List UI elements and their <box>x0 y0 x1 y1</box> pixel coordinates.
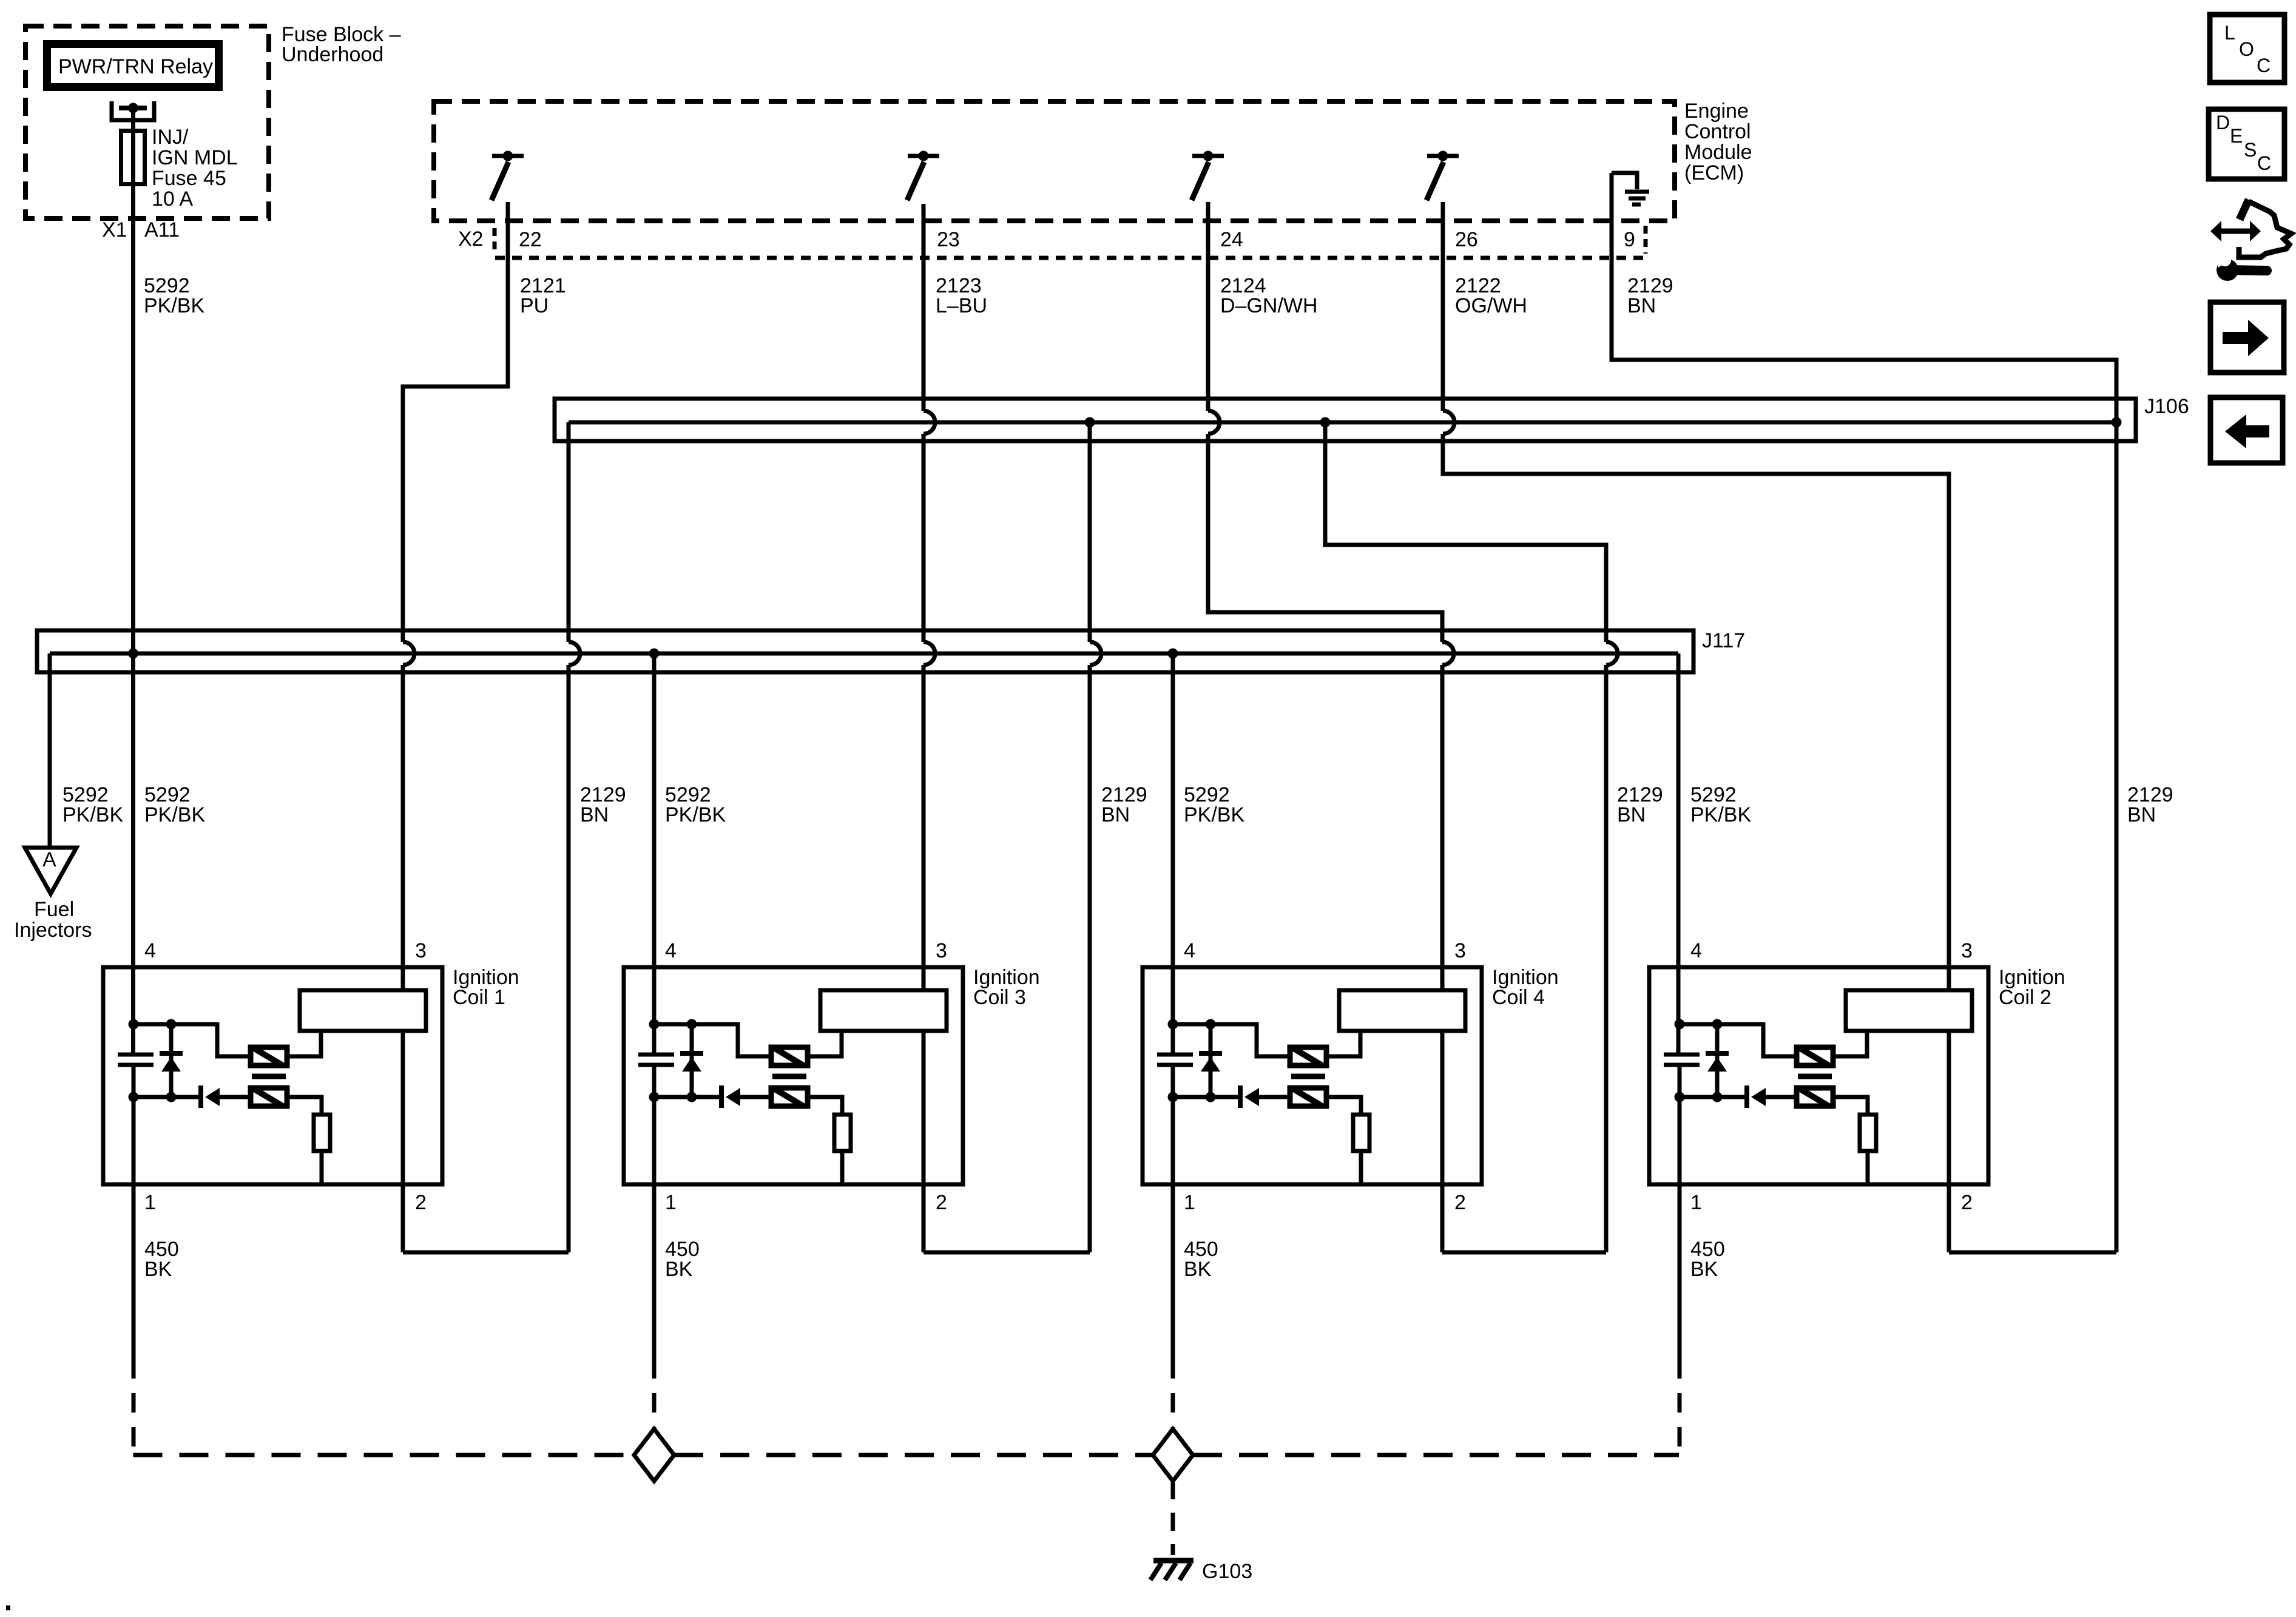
wire 2121 PU: pin22 down, jog left, through J117 to coil1 pin3 <box>403 202 508 642</box>
wire 2129 BN: ECM pin9 ground, jog right, down to J106 splice and coil2 pin2 <box>1612 173 2116 1252</box>
svg-text:Control: Control <box>1684 120 1751 143</box>
ignition coil Coil 2 box <box>1649 967 1988 1184</box>
resistor R (Coil 4) <box>1353 1115 1369 1151</box>
svg-text:2: 2 <box>936 1191 947 1214</box>
svg-text:BN: BN <box>580 803 609 826</box>
svg-text:D–GN/WH: D–GN/WH <box>1220 294 1318 317</box>
svg-text:A: A <box>42 848 56 871</box>
svg-text:4: 4 <box>1184 939 1195 962</box>
capacitor C (Coil 2) <box>1664 1053 1700 1057</box>
node: J106 junction with ECM pin9 ground wire <box>2112 417 2122 428</box>
wire top branch to primary winding (Coil 3) <box>654 1024 772 1056</box>
wire 2122 OG/WH: pin26 down, jog right, to coil2 pin3 <box>1441 202 1445 411</box>
svg-text:23: 23 <box>937 228 960 251</box>
ECM coil driver (switch) at pin wire x=2378 <box>1438 151 1448 161</box>
splice diamond on ground bus (coil 3) <box>634 1429 674 1481</box>
svg-text:BN: BN <box>1617 803 1646 826</box>
svg-text:3: 3 <box>415 939 427 962</box>
ECM coil driver (switch) at pin wire x=1991 <box>1203 151 1214 161</box>
primary winding (Coil 2) <box>1797 1047 1833 1065</box>
svg-text:PU: PU <box>520 294 549 317</box>
svg-text:3: 3 <box>1454 939 1466 962</box>
wire resistor to case (Coil 3) <box>840 1151 845 1184</box>
primary winding (Coil 4) <box>1290 1047 1326 1065</box>
icon DESC box <box>2209 109 2284 179</box>
wire 2129 BN: J106 tap jog right down through J117 to coil4 pin2 <box>1325 422 1606 642</box>
zener diode D1 (Coil 3) <box>690 1024 694 1097</box>
svg-text:10 A: 10 A <box>152 187 193 211</box>
wire 2129 BN: J106 bus left end down through J117 to coil1 pin2 <box>567 422 571 642</box>
transformer core (Coil 3) <box>772 1074 806 1079</box>
node: J117 junction with fuse feed <box>128 649 138 659</box>
svg-text:Fuse 45: Fuse 45 <box>152 167 226 190</box>
wire bottom branch (Coil 2) <box>1680 1095 1747 1099</box>
ignition coil Coil 4 box <box>1143 967 1482 1184</box>
svg-text:BN: BN <box>2127 803 2156 826</box>
fuse block underhood dashed enclosure <box>25 26 269 218</box>
wire primary to tower (Coil 1) <box>287 1031 321 1056</box>
svg-text:A11: A11 <box>144 218 180 241</box>
primary winding (Coil 1) <box>251 1047 287 1065</box>
secondary winding (Coil 4) <box>1290 1088 1326 1106</box>
secondary winding (Coil 2) <box>1797 1088 1833 1106</box>
svg-text:Coil 2: Coil 2 <box>1999 986 2051 1009</box>
svg-text:IGN MDL: IGN MDL <box>152 146 238 169</box>
wire 5292 PK/BK: J117 tap down to coil3 pin 4 <box>652 653 657 1055</box>
off-page connector A: Fuel Injectors <box>25 848 76 894</box>
svg-text:1: 1 <box>1184 1191 1195 1214</box>
svg-text:OG/WH: OG/WH <box>1455 294 1527 317</box>
zener diode D1 (Coil 2) <box>1715 1024 1720 1097</box>
connector separator right of pin 9 <box>1644 226 1648 254</box>
connector separator X2 <box>493 228 497 252</box>
wire pin4 branch lower segment (Coil 2) <box>1678 1065 1682 1359</box>
wire 450 BK dashed to ground bus (Coil 2) <box>1678 1359 1682 1455</box>
wire coil2 pin2 to 2129 BN <box>1949 1251 2116 1255</box>
wire 2123 L-BU: pin23 straight down through J106,J117 to coil3 pin3 <box>922 204 926 411</box>
wire coil1 pin2 to 2129 BN <box>403 1251 569 1255</box>
wire top branch to primary winding (Coil 1) <box>133 1024 251 1056</box>
svg-text:PK/BK: PK/BK <box>144 803 205 826</box>
svg-text:L: L <box>2224 22 2235 44</box>
svg-text:Coil 4: Coil 4 <box>1492 986 1545 1009</box>
node: relay output junction <box>119 106 147 110</box>
svg-text:BK: BK <box>1690 1258 1718 1281</box>
secondary tower block (Coil 2) <box>1846 990 1972 1031</box>
svg-text:1: 1 <box>1690 1191 1702 1214</box>
zener diode D1 (Coil 4) <box>1209 1024 1213 1097</box>
svg-text:BN: BN <box>1101 803 1130 826</box>
svg-text:1: 1 <box>665 1191 677 1214</box>
splice pack J117 bus bar <box>50 652 1678 656</box>
svg-text:C: C <box>2257 152 2271 174</box>
secondary tower block (Coil 4) <box>1339 990 1465 1031</box>
wire pin3/pin2 through tower (Coil 3) <box>922 1031 926 1252</box>
wire bottom branch (Coil 3) <box>654 1095 722 1099</box>
wire primary to tower (Coil 2) <box>1833 1031 1867 1056</box>
svg-text:PWR/TRN Relay: PWR/TRN Relay <box>58 55 213 78</box>
svg-text:2: 2 <box>1454 1191 1466 1214</box>
svg-text:O: O <box>2239 38 2254 60</box>
splice pack J106 bus bar <box>569 420 2116 425</box>
ground G103 symbol <box>1153 1558 1194 1564</box>
svg-text:X1: X1 <box>102 218 127 241</box>
wire resistor to case (Coil 4) <box>1359 1151 1363 1184</box>
node junctions on pin4 branch (Coil 4) <box>1168 1019 1178 1030</box>
node: J117 tap to coil3 pin 4 <box>649 649 660 659</box>
svg-text:Module: Module <box>1684 141 1752 164</box>
relay K: PWR/TRN Relay <box>47 44 219 87</box>
node junctions on pin4 branch (Coil 2) <box>1675 1019 1685 1030</box>
wire bottom branch (Coil 4) <box>1173 1095 1241 1099</box>
svg-text:2: 2 <box>415 1191 427 1214</box>
wire top branch to primary winding (Coil 2) <box>1680 1024 1797 1056</box>
wire pin3/pin2 through tower (Coil 4) <box>1440 1031 1445 1252</box>
svg-text:D: D <box>2216 112 2230 133</box>
icon LOC box <box>2210 15 2284 83</box>
svg-text:BN: BN <box>1627 294 1656 317</box>
svg-text:PK/BK: PK/BK <box>1184 803 1244 826</box>
ECM connector row dotted line <box>495 256 1646 260</box>
svg-text:1: 1 <box>144 1191 156 1214</box>
wire 5292 PK/BK: J117 right end down to coil2 pin 4 <box>1676 653 1681 1055</box>
fuse F45: INJ/IGN MDL Fuse 45 10A <box>121 131 145 184</box>
capacitor C (Coil 4) <box>1157 1053 1193 1057</box>
wire coil4 pin2 to 2129 BN <box>1442 1251 1606 1255</box>
wire 5292 PK/BK: J117 left end down to fuel injectors <box>48 653 52 848</box>
capacitor C (Coil 1) <box>118 1053 154 1057</box>
svg-text:Injectors: Injectors <box>14 919 92 942</box>
svg-text:22: 22 <box>519 228 542 251</box>
wire pin4 branch lower segment (Coil 4) <box>1171 1065 1175 1359</box>
wire coil3 pin2 to 2129 BN <box>923 1251 1090 1255</box>
svg-text:(ECM): (ECM) <box>1684 161 1744 184</box>
svg-text:PK/BK: PK/BK <box>144 294 204 317</box>
secondary tower block (Coil 3) <box>820 990 947 1031</box>
splice diamond on ground bus (coil 4) <box>1153 1429 1193 1481</box>
svg-text:L–BU: L–BU <box>936 294 987 317</box>
wire pin4 branch lower segment (Coil 3) <box>652 1065 657 1359</box>
svg-text:X2: X2 <box>458 228 484 251</box>
svg-text:J106: J106 <box>2144 395 2189 418</box>
secondary winding (Coil 1) <box>251 1088 287 1106</box>
ignition coil Coil 1 box <box>103 967 442 1184</box>
icon forward arrow box <box>2210 302 2284 373</box>
svg-text:9: 9 <box>1624 228 1635 251</box>
relay output terminal bracket <box>112 101 154 120</box>
svg-text:4: 4 <box>144 939 156 962</box>
svg-text:BK: BK <box>1184 1258 1212 1281</box>
capacitor C (Coil 3) <box>638 1053 674 1057</box>
transformer core (Coil 2) <box>1798 1074 1832 1079</box>
ignition coil Coil 3 box <box>624 967 963 1184</box>
wire pin3/pin2 through tower (Coil 2) <box>1947 1031 1951 1252</box>
svg-text:BK: BK <box>665 1258 693 1281</box>
wire pin3/pin2 through tower (Coil 1) <box>401 1031 405 1252</box>
svg-text:C: C <box>2257 55 2271 76</box>
icon back arrow box <box>2210 397 2283 463</box>
splice pack J106 housing <box>555 399 2136 441</box>
wire 5292 PK/BK: J117 tap down to coil4 pin 4 <box>1171 653 1175 1055</box>
svg-text:Coil 1: Coil 1 <box>453 986 505 1009</box>
svg-text:3: 3 <box>936 939 947 962</box>
node junctions on pin4 branch (Coil 1) <box>129 1019 139 1030</box>
resistor R (Coil 2) <box>1860 1115 1876 1151</box>
svg-text:PK/BK: PK/BK <box>62 803 123 826</box>
wire 2124 D-GN/WH: pin24 down, jog right, to coil4 pin3 <box>1206 202 1210 411</box>
node: J106 tap to coil4 pin2 <box>1320 417 1331 428</box>
node: J117 tap to coil4 pin 4 <box>1168 649 1178 659</box>
wire top branch to primary winding (Coil 4) <box>1173 1024 1291 1056</box>
wire primary to tower (Coil 4) <box>1326 1031 1360 1056</box>
ECM coil driver (switch) at pin wire x=837 <box>503 151 513 161</box>
svg-text:PK/BK: PK/BK <box>1690 803 1751 826</box>
svg-text:BK: BK <box>144 1258 172 1281</box>
diode D2 (Coil 3) <box>719 1085 724 1108</box>
svg-text:2: 2 <box>1961 1191 1973 1214</box>
wire 450 BK dashed to ground bus (Coil 4) <box>1171 1359 1175 1429</box>
svg-text:Engine: Engine <box>1684 100 1749 123</box>
node junctions on pin4 branch (Coil 3) <box>649 1019 660 1030</box>
svg-text:Fuel: Fuel <box>34 898 74 921</box>
zener diode D1 (Coil 1) <box>169 1024 174 1097</box>
primary winding (Coil 3) <box>771 1047 808 1065</box>
svg-text:G103: G103 <box>1202 1560 1252 1583</box>
wire 450 BK dashed to ground bus (Coil 1) <box>132 1359 136 1455</box>
node: J106 tap to coil3 pin2 <box>1085 417 1095 428</box>
svg-text:PK/BK: PK/BK <box>665 803 726 826</box>
ECM coil driver (switch) at pin wire x=1522 <box>919 151 929 161</box>
wire secondary to resistor (Coil 2) <box>1833 1097 1868 1115</box>
transformer core (Coil 1) <box>252 1074 286 1079</box>
svg-text:E: E <box>2230 125 2243 147</box>
resistor R (Coil 3) <box>834 1115 851 1151</box>
wire pin4 branch lower segment (Coil 1) <box>132 1065 136 1359</box>
svg-text:Underhood: Underhood <box>282 43 383 66</box>
wire resistor to case (Coil 1) <box>320 1151 324 1184</box>
wire bottom branch (Coil 1) <box>133 1095 201 1099</box>
wire 5292 PK/BK from fuse A11 down to J117 splice (coil 1 pin 4 feed) <box>131 108 135 1055</box>
secondary tower block (Coil 1) <box>300 990 426 1031</box>
diode D2 (Coil 2) <box>1744 1085 1749 1108</box>
svg-text:J117: J117 <box>1702 629 1745 652</box>
wire secondary to resistor (Coil 1) <box>287 1097 322 1115</box>
diode D2 (Coil 4) <box>1238 1085 1243 1108</box>
wire 450 BK dashed to ground bus (Coil 3) <box>652 1359 657 1429</box>
svg-text:S: S <box>2244 139 2257 161</box>
secondary winding (Coil 3) <box>771 1088 808 1106</box>
wire secondary to resistor (Coil 4) <box>1326 1097 1361 1115</box>
svg-text:4: 4 <box>665 939 677 962</box>
svg-text:24: 24 <box>1220 228 1243 251</box>
wire dashed splice to ground G103 <box>1171 1481 1175 1555</box>
icon wiring diagram / wrench <box>2210 221 2221 241</box>
svg-text:4: 4 <box>1690 939 1702 962</box>
svg-text:26: 26 <box>1455 228 1478 251</box>
ECM dashed enclosure: Engine Control Module <box>434 101 1675 221</box>
wire secondary to resistor (Coil 3) <box>808 1097 842 1115</box>
transformer core (Coil 4) <box>1291 1074 1325 1079</box>
resistor R (Coil 1) <box>314 1115 330 1151</box>
svg-text:Coil 3: Coil 3 <box>973 986 1026 1009</box>
wire 450 BK dashed ground bus <box>133 1453 635 1457</box>
wire 2129 BN: J106 tap down through J117 to coil3 pin2 <box>1088 422 1092 642</box>
wire primary to tower (Coil 3) <box>808 1031 842 1056</box>
svg-text:INJ/: INJ/ <box>152 126 189 149</box>
ECM internal ground symbol at pin 9 <box>1612 173 1637 189</box>
svg-text:3: 3 <box>1961 939 1973 962</box>
splice pack J117 housing <box>37 630 1693 672</box>
wire resistor to case (Coil 2) <box>1866 1151 1870 1184</box>
diode D2 (Coil 1) <box>198 1085 203 1108</box>
page artifact dot bottom left <box>6 1605 10 1610</box>
